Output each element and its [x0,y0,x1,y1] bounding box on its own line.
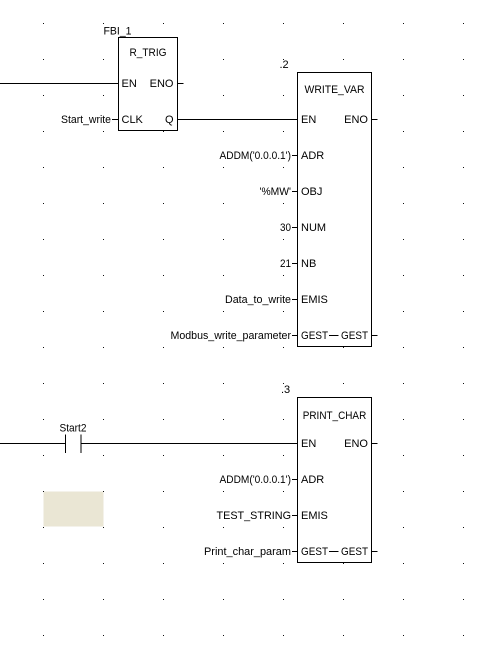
svg-text:.3: .3 [281,384,290,396]
svg-text:Q: Q [165,114,174,126]
svg-text:.2: .2 [280,59,289,71]
svg-text:ENO: ENO [150,78,174,90]
svg-text:EMIS: EMIS [301,294,328,306]
svg-text:TEST_STRING: TEST_STRING [217,510,292,522]
svg-text:ENO: ENO [344,114,368,126]
svg-text:ADDM('0.0.0.1'): ADDM('0.0.0.1') [220,474,292,486]
svg-text:NUM: NUM [301,222,326,234]
svg-text:21: 21 [280,258,291,270]
svg-text:ENO: ENO [344,438,368,450]
svg-text:Data_to_write: Data_to_write [225,294,291,306]
svg-text:PRINT_CHAR: PRINT_CHAR [303,410,367,422]
svg-text:EN: EN [301,114,316,126]
svg-text:GEST: GEST [341,330,368,342]
svg-text:GEST: GEST [341,546,368,558]
svg-text:Start_write: Start_write [61,114,111,126]
svg-text:OBJ: OBJ [301,186,322,198]
svg-text:30: 30 [280,222,291,234]
svg-text:GEST: GEST [301,546,328,558]
svg-text:NB: NB [301,258,316,270]
svg-text:EN: EN [122,78,137,90]
svg-text:GEST: GEST [301,330,328,342]
svg-text:CLK: CLK [122,114,144,126]
svg-text:EMIS: EMIS [301,510,328,522]
svg-text:'%MW': '%MW' [260,186,292,198]
svg-text:FBI_1: FBI_1 [104,26,132,38]
svg-text:Modbus_write_parameter: Modbus_write_parameter [171,330,292,342]
svg-text:WRITE_VAR: WRITE_VAR [305,84,365,96]
svg-text:R_TRIG: R_TRIG [130,47,167,59]
svg-text:ADR: ADR [301,150,324,162]
svg-text:ADR: ADR [301,474,324,486]
svg-text:Print_char_param: Print_char_param [204,546,291,558]
svg-text:EN: EN [301,438,316,450]
svg-text:ADDM('0.0.0.1'): ADDM('0.0.0.1') [220,150,292,162]
svg-text:Start2: Start2 [60,423,87,435]
